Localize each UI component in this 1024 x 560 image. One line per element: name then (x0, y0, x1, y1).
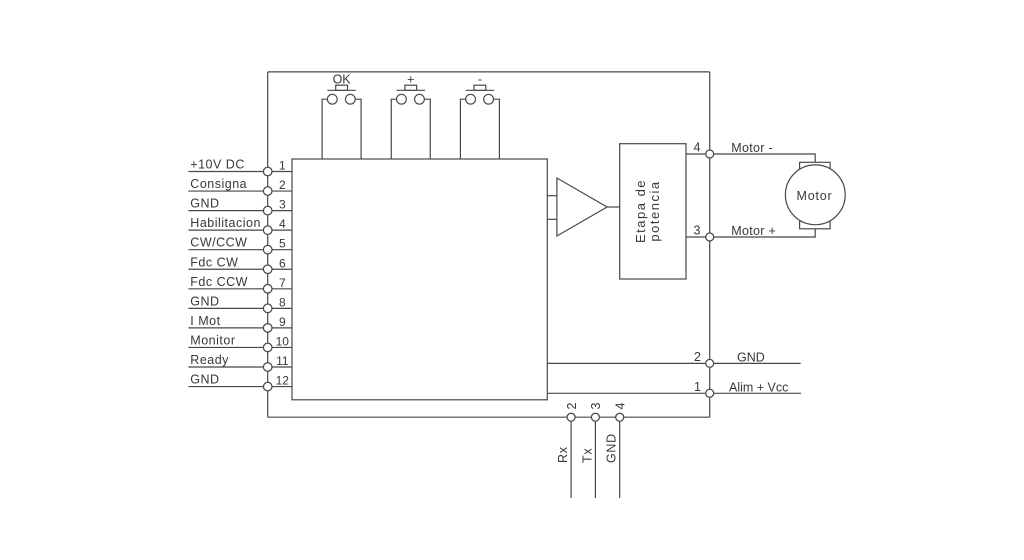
svg-text:2: 2 (279, 178, 286, 192)
svg-text:1: 1 (279, 159, 286, 173)
push-button - (460, 73, 499, 159)
wire: pin 3 to controller (272, 210, 292, 212)
svg-text:1: 1 (694, 380, 701, 394)
wire: pin 8 to controller (272, 307, 292, 309)
svg-text:6: 6 (279, 256, 286, 270)
terminal: connector pin 10 (263, 343, 272, 352)
terminal: connector pin 11 (263, 363, 272, 372)
svg-text:12: 12 (276, 374, 290, 388)
motor M1 brush bottom (800, 221, 831, 228)
svg-text:Alim + Vcc: Alim + Vcc (729, 381, 788, 395)
terminal: connector pin 4 (263, 226, 272, 235)
svg-text:9: 9 (279, 315, 286, 329)
wire: pin 6 to controller (272, 268, 292, 270)
wire: amp input + (547, 195, 557, 197)
svg-text:Tx: Tx (580, 448, 594, 463)
terminal: connector pin 12 (263, 382, 272, 391)
svg-text:Motor +: Motor + (731, 224, 776, 238)
svg-text:+: + (407, 73, 414, 87)
svg-text:GND: GND (190, 197, 219, 211)
wire: outer frame left bus (pins 1-12) (267, 72, 269, 417)
svg-text:4: 4 (614, 403, 628, 410)
wire: pin 11 to controller (272, 366, 292, 368)
svg-text:CW/CCW: CW/CCW (190, 236, 247, 250)
wire: pin 1 label lead (188, 171, 263, 173)
power stage block: Etapa de potencia (620, 144, 686, 279)
wire: pin 4 label lead (188, 229, 263, 231)
svg-text:10: 10 (276, 334, 290, 348)
wire: pin 9 label lead (188, 327, 263, 329)
svg-text:GND: GND (190, 294, 219, 308)
svg-text:GND: GND (190, 373, 219, 387)
terminal: serial pin 4 (616, 413, 624, 421)
terminal: connector pin 3 (263, 206, 272, 215)
pin number 2 (rotated) (565, 403, 579, 410)
wire: pin 12 label lead (188, 386, 263, 388)
wire: serial GND drop (619, 421, 621, 498)
push-button OK (322, 73, 361, 159)
wire: pin 3 label lead (188, 210, 263, 212)
wire: outer frame bottom edge (serial bus) (268, 416, 710, 418)
label: Tx (rotated) (580, 448, 594, 463)
svg-text:I Mot: I Mot (190, 314, 220, 328)
wire: outer frame right bus (pins 4,3,2,1) (709, 72, 711, 417)
pin number 4 (rotated) (614, 403, 628, 410)
svg-text:-: - (478, 73, 482, 87)
terminal: connector pin 1 (263, 167, 272, 176)
terminal: connector pin 7 (263, 285, 272, 294)
svg-text:3: 3 (589, 403, 603, 410)
svg-text:Etapa depotencia: Etapa depotencia (633, 179, 662, 243)
wire: pin 5 to controller (272, 249, 292, 251)
svg-text:Fdc CW: Fdc CW (190, 255, 238, 269)
svg-text:3: 3 (279, 198, 286, 212)
wire: pin 10 label lead (188, 346, 263, 348)
wire: pin 4 to controller (272, 229, 292, 231)
svg-text:5: 5 (279, 237, 286, 251)
terminal: serial pin 3 (591, 413, 599, 421)
motor M1 body (785, 165, 845, 225)
motor M1 brush top (800, 162, 831, 169)
svg-text:8: 8 (279, 295, 286, 309)
label: Etapa de potencia (rotated) (633, 179, 662, 243)
svg-text:Monitor: Monitor (190, 333, 235, 347)
wire: pin 2 label lead (188, 190, 263, 192)
wire: pin 6 label lead (188, 268, 263, 270)
wire: amp output (607, 206, 620, 208)
junction: terminal 4 on right bus (706, 150, 714, 158)
svg-text:Ready: Ready (190, 353, 229, 367)
wire: pin 7 label lead (188, 288, 263, 290)
terminal: connector pin 5 (263, 245, 272, 254)
wire: pin 9 to controller (272, 327, 292, 329)
wire: controller GND to pin 2 (547, 362, 800, 364)
wire: pin 11 label lead (188, 366, 263, 368)
wire: amp input - (547, 218, 557, 220)
wire: pin 8 label lead (188, 307, 263, 309)
svg-text:Motor: Motor (797, 189, 833, 203)
wire: pin 12 to controller (272, 386, 292, 388)
junction: terminal 3 on right bus (706, 233, 714, 241)
terminal: connector pin 9 (263, 324, 272, 333)
svg-text:GND: GND (737, 350, 765, 364)
svg-text:7: 7 (279, 276, 286, 290)
pin number 3 (rotated) (589, 403, 603, 410)
svg-text:Fdc CCW: Fdc CCW (190, 275, 248, 289)
wire: serial Rx drop (570, 421, 572, 498)
svg-text:OK: OK (333, 73, 352, 87)
svg-text:GND: GND (605, 433, 619, 463)
label: Rx (rotated) (556, 446, 570, 463)
svg-text:Consigna: Consigna (190, 177, 247, 191)
svg-text:Habilitacion: Habilitacion (190, 216, 261, 230)
wire: controller Alim to pin 1 (547, 392, 801, 394)
svg-text:2: 2 (694, 350, 701, 364)
terminal: connector pin 6 (263, 265, 272, 274)
svg-text:2: 2 (565, 403, 579, 410)
wire: power stage pin 4 to Motor - (686, 154, 815, 162)
wire: pin 2 to controller (272, 190, 292, 192)
wire: pin 10 to controller (272, 346, 292, 348)
svg-text:+10V DC: +10V DC (190, 158, 245, 172)
wire: pin 5 label lead (188, 249, 263, 251)
svg-text:4: 4 (279, 217, 286, 231)
svg-text:Rx: Rx (556, 446, 570, 463)
terminal: connector pin 2 (263, 187, 272, 196)
wire: pin 7 to controller (272, 288, 292, 290)
junction: terminal 1 on right bus (706, 389, 714, 397)
controller box U1 (292, 159, 547, 400)
wire: outer frame top edge (268, 71, 710, 73)
terminal: connector pin 8 (263, 304, 272, 313)
wire: serial Tx drop (594, 421, 596, 498)
wire: power stage pin 3 to Motor + (686, 229, 815, 237)
wire: pin 1 to controller (272, 171, 292, 173)
op-amp driver A1 (557, 178, 607, 236)
svg-text:3: 3 (694, 224, 701, 238)
svg-text:Motor -: Motor - (731, 141, 773, 155)
terminal: serial pin 2 (567, 413, 575, 421)
push-button + (391, 73, 430, 159)
label: GND (rotated) (605, 433, 619, 463)
svg-text:11: 11 (276, 354, 289, 368)
svg-text:4: 4 (694, 141, 701, 155)
junction: terminal 2 on right bus (706, 359, 714, 367)
